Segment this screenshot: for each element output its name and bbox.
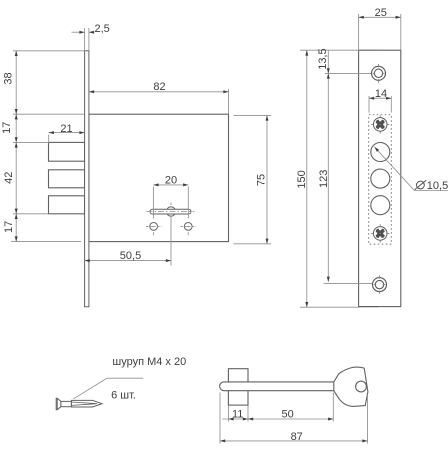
svg-text:17: 17 <box>1 122 13 134</box>
svg-text:17: 17 <box>3 221 15 233</box>
keyhole slot centreline <box>147 211 195 213</box>
left dimension chain line <box>15 51 17 242</box>
dimension 50 <box>248 409 333 421</box>
key dimension extension lines <box>219 393 221 444</box>
dimension 123 <box>318 170 377 284</box>
keyhole slot centre bulge <box>167 207 175 216</box>
dimension 75 <box>234 115 272 243</box>
faceplate front plate <box>359 50 401 306</box>
dimension 25 <box>359 7 401 50</box>
svg-text:42: 42 <box>3 172 15 184</box>
dimension 13,5 / 123 shared line <box>327 50 329 282</box>
torx screw symbol bottom <box>371 224 389 242</box>
plate top edge dark segment <box>359 49 377 51</box>
svg-text:25: 25 <box>375 7 387 19</box>
svg-text:20: 20 <box>165 175 177 187</box>
dimension 2,5 extension lines <box>84 28 86 51</box>
keyhole vertical centreline / 50,5 extension <box>170 216 172 265</box>
dashed cutout region <box>369 115 392 244</box>
bore hole 2 <box>371 169 390 188</box>
svg-text:82: 82 <box>153 81 165 93</box>
screw threaded point <box>71 400 102 407</box>
lock body <box>89 114 229 241</box>
svg-text:38: 38 <box>2 72 14 84</box>
dimension 150 <box>296 50 309 307</box>
svg-text:10,5: 10,5 <box>427 180 448 192</box>
svg-text:21: 21 <box>60 123 72 135</box>
dimension 150 extension lines <box>300 49 377 51</box>
dimension 14 <box>369 88 391 113</box>
screw leader line <box>74 378 144 399</box>
keyhole screw circle left <box>150 223 158 231</box>
keyhole centre tick above slot <box>170 202 172 205</box>
dimension 82 <box>89 81 229 114</box>
dimension 2,5 <box>72 23 110 35</box>
key bow <box>334 367 368 406</box>
svg-text:2,5: 2,5 <box>95 23 110 35</box>
dimension 20 <box>153 175 188 187</box>
left dimension chain extension lines <box>13 50 85 52</box>
svg-text:6 шт.: 6 шт. <box>111 390 136 402</box>
chain arrows <box>15 51 18 56</box>
bolt 3 <box>49 196 85 214</box>
svg-text:шуруп М4 х 20: шуруп М4 х 20 <box>112 356 186 368</box>
bore hole 3 <box>371 196 390 215</box>
dimension 87 <box>220 431 368 443</box>
dimension 13,5 <box>317 48 372 78</box>
svg-text:50,5: 50,5 <box>120 250 141 262</box>
dimension 21 <box>49 123 85 143</box>
dimension 20 extension lines <box>152 187 154 219</box>
dimension 11 <box>222 409 248 421</box>
bolt 2 <box>49 170 85 188</box>
keyhole screw circle right <box>184 223 192 231</box>
svg-text:11: 11 <box>232 409 243 421</box>
svg-text:87: 87 <box>291 431 303 443</box>
key shaft <box>220 382 334 391</box>
plate bottom edge dark segment <box>359 306 379 308</box>
svg-text:123: 123 <box>318 170 330 188</box>
key bit <box>228 369 248 405</box>
svg-text:150: 150 <box>296 170 308 188</box>
keyhole slot <box>150 209 191 214</box>
faceplate (side view strip) <box>85 51 89 307</box>
key bow hole <box>356 381 367 392</box>
screw head <box>56 398 61 409</box>
leader diameter 10,5 <box>373 146 448 192</box>
screw hole top <box>372 66 386 80</box>
torx screw symbol top <box>371 115 389 133</box>
svg-text:75: 75 <box>255 174 267 186</box>
svg-text:13,5: 13,5 <box>317 48 329 69</box>
bolt 1 <box>49 142 85 161</box>
bore hole 1 <box>371 143 390 162</box>
screw shank <box>61 401 72 406</box>
svg-text:50: 50 <box>281 409 293 421</box>
svg-text:14: 14 <box>375 88 387 100</box>
screw hole bottom <box>373 278 387 292</box>
dimension 50,5 <box>85 250 171 262</box>
